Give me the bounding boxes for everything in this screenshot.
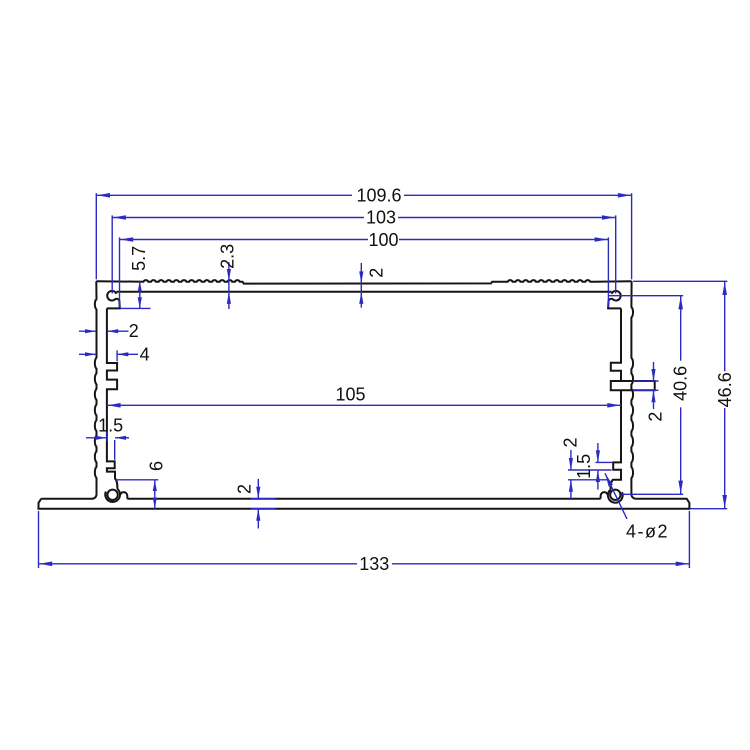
label 4-D2 screw holes with leader: [605, 473, 627, 519]
dimension 109.6 extension lines: [95, 193, 97, 279]
left inner wall with PCB-slot teeth: [107, 308, 117, 489]
right inner wall with tooth and slot: [611, 308, 621, 489]
dimension 46.6 reference lines: [633, 280, 727, 282]
svg-text:2: 2: [129, 321, 139, 341]
dimension 100: [120, 239, 369, 241]
dimension 4 tooth depth: [79, 353, 96, 355]
flange top left segment: [41, 498, 92, 500]
dimension 2 base thickness: [257, 479, 259, 499]
dimension 2 tab thickness: [633, 380, 659, 382]
dimension 103 extension lines: [111, 215, 113, 293]
dimension 100 extension lines: [119, 237, 121, 307]
left outer wall with serrations and base fillet: [92, 281, 97, 498]
svg-text:100: 100: [368, 230, 398, 250]
bottom-right screw boss with C-hook: [608, 490, 623, 503]
dimension 2 lower-right slot: [568, 469, 612, 471]
svg-text:5.7: 5.7: [129, 246, 149, 271]
screw hole bottom-right: [610, 490, 620, 500]
lid top surface with serrated sections: [96, 280, 631, 283]
svg-text:2: 2: [646, 412, 666, 422]
dimension 6 boss height: [154, 480, 156, 509]
svg-text:2: 2: [366, 268, 386, 278]
svg-text:46.6: 46.6: [715, 372, 735, 407]
base plate top edge inside enclosure: [127, 498, 600, 500]
svg-text:4-ø2: 4-ø2: [626, 522, 669, 542]
dimension 2 left wall thickness: [79, 330, 96, 332]
bottom-left screw boss with C-hook: [105, 489, 120, 502]
svg-text:1.5: 1.5: [98, 415, 123, 435]
svg-text:4: 4: [140, 344, 150, 364]
dimension 133: [39, 563, 358, 565]
dimension 5.7: [139, 281, 141, 309]
svg-text:1.5: 1.5: [574, 454, 594, 479]
dimension 46.6: [724, 281, 726, 371]
dimension 105 inner width: [107, 404, 621, 406]
mid-wall mounting tab protruding through right wall: [611, 381, 655, 390]
dimension 133 extension lines: [38, 511, 40, 568]
top-right screw boss C-channel: [608, 291, 621, 309]
svg-text:105: 105: [335, 384, 365, 404]
top-left screw boss C-channel: [107, 291, 120, 309]
svg-text:2: 2: [235, 484, 255, 494]
svg-text:6: 6: [146, 461, 166, 471]
dimension 109.6: [96, 194, 352, 196]
screw hole bottom-left: [107, 490, 117, 500]
svg-text:2: 2: [560, 437, 580, 447]
dimension 2 lid thickness: [360, 263, 362, 308]
outer boundary of extrusion profile (flanged base, side walls, serrated lid top): [39, 499, 690, 509]
dimension 40.6: [680, 296, 682, 361]
svg-text:109.6: 109.6: [356, 186, 401, 206]
dimension 1.5 lower-left notch: [86, 437, 107, 439]
dimension 1.5 lower-right tooth: [596, 461, 613, 463]
right outer wall with serrations and base fillet: [631, 281, 636, 498]
lid bottom inner ceiling: [116, 291, 611, 293]
svg-text:2.3: 2.3: [217, 244, 237, 269]
svg-text:133: 133: [359, 554, 389, 574]
svg-text:103: 103: [366, 208, 396, 228]
dimension 103: [112, 217, 364, 219]
dimension 2.3: [228, 262, 230, 309]
svg-text:40.6: 40.6: [671, 366, 691, 401]
dimension 40.6 reference lines: [609, 295, 683, 297]
